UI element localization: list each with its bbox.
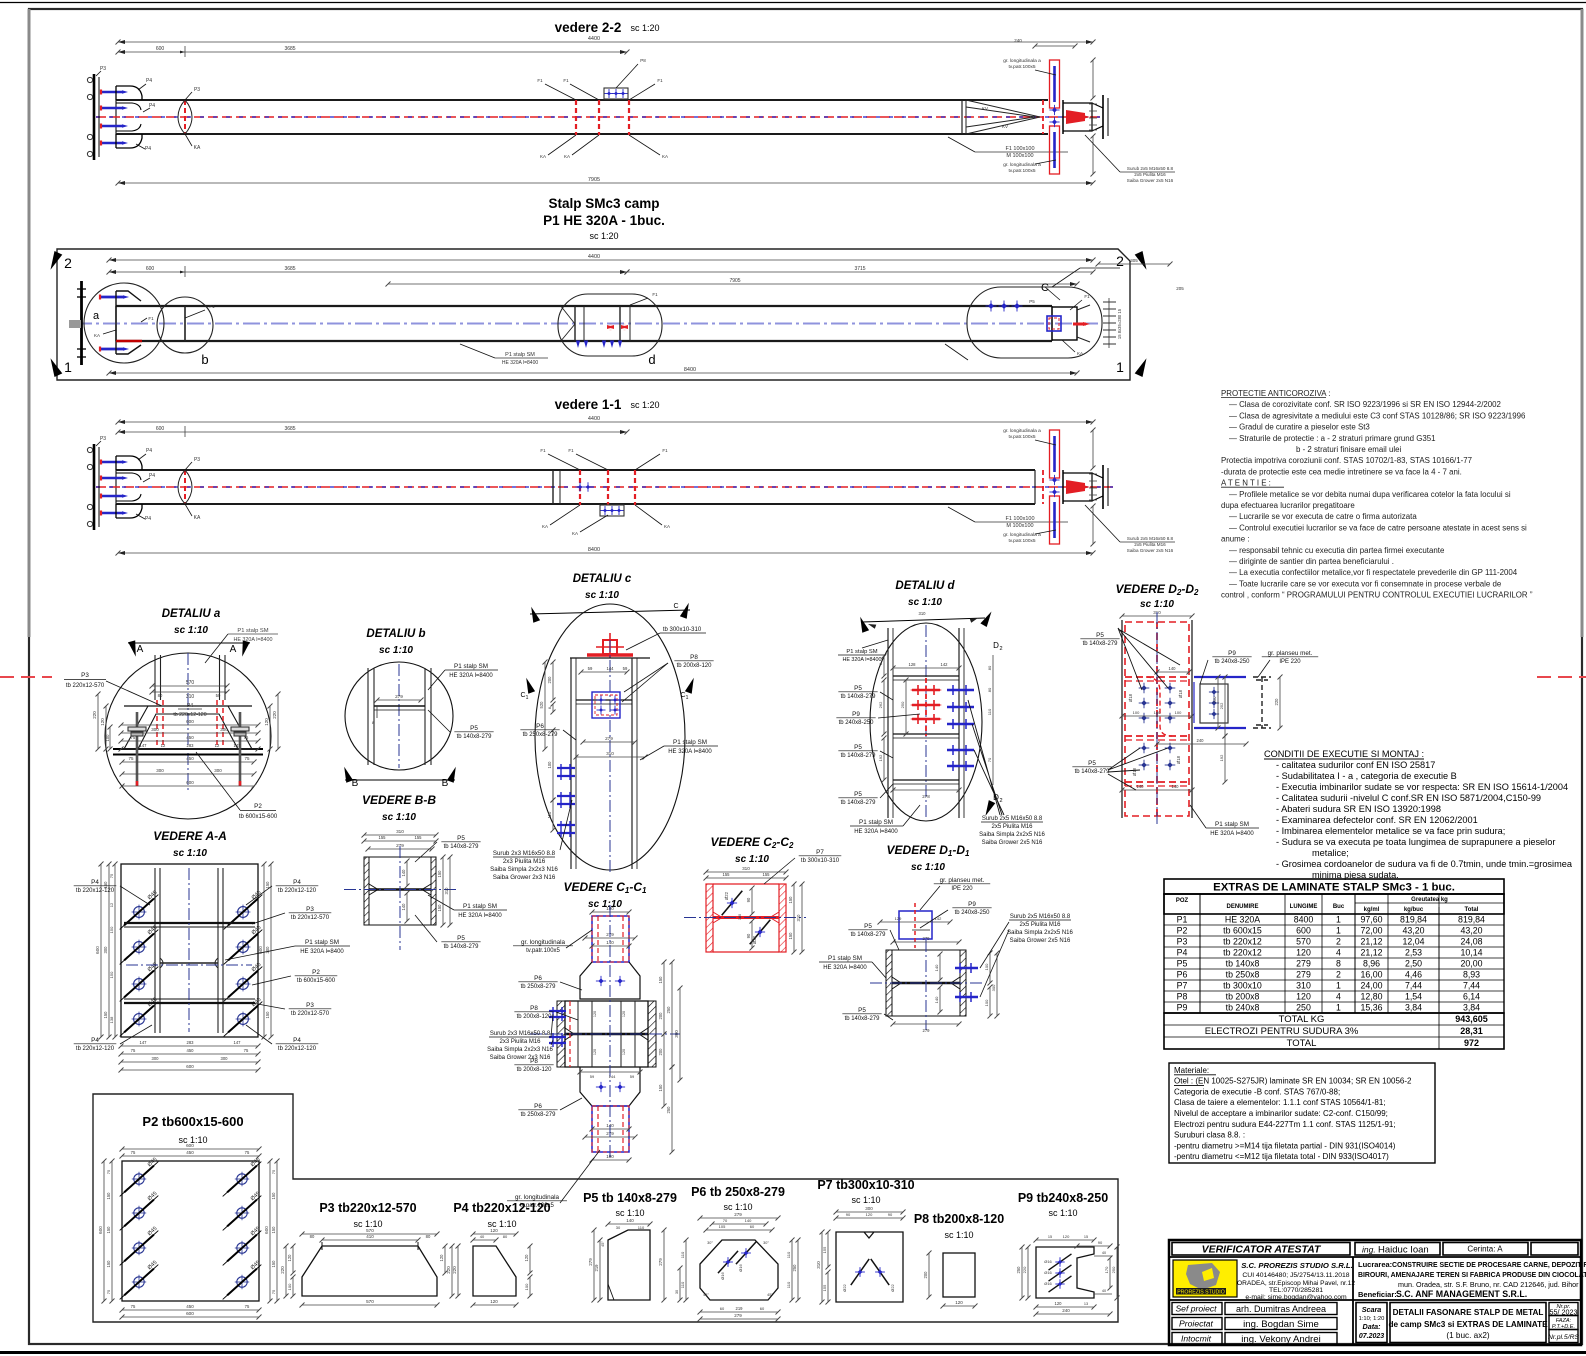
section B-B flags bbox=[345, 779, 455, 781]
vedere 2-2 top dimension 4400 bbox=[118, 41, 1093, 43]
P5 plate shape bbox=[608, 1230, 650, 1300]
svg-text:2: 2 bbox=[999, 646, 1002, 652]
svg-text:55/ 2023: 55/ 2023 bbox=[1550, 1308, 1578, 1317]
svg-text:1: 1 bbox=[1336, 926, 1341, 936]
svg-text:75: 75 bbox=[106, 1289, 111, 1294]
svg-text:tb 140x8-279: tb 140x8-279 bbox=[444, 944, 480, 950]
svg-text:4,46: 4,46 bbox=[1405, 970, 1422, 980]
svg-text:P2: P2 bbox=[254, 803, 262, 810]
svg-text:LUNGIME: LUNGIME bbox=[1290, 904, 1318, 910]
svg-text:P7: P7 bbox=[1177, 981, 1188, 991]
svg-text:— diriginte de santier di: — diriginte de santier din partea benefi… bbox=[1229, 557, 1394, 566]
svg-text:140: 140 bbox=[1169, 666, 1177, 671]
svg-text:tb 140x8-279: tb 140x8-279 bbox=[841, 694, 877, 700]
svg-text:70: 70 bbox=[723, 1218, 728, 1223]
svg-text:310: 310 bbox=[186, 694, 195, 700]
plan end plate left bbox=[80, 281, 83, 365]
svg-text:120: 120 bbox=[955, 1300, 963, 1305]
label F1 weld mid (vedere 2-2) bbox=[948, 137, 975, 152]
svg-text:972: 972 bbox=[1464, 1038, 1479, 1048]
svg-text:P1 stalp SM: P1 stalp SM bbox=[828, 955, 862, 962]
section line C (top) bbox=[530, 610, 690, 614]
svg-text:150: 150 bbox=[265, 1011, 270, 1019]
svg-text:- Sudabilitatea I - a ,: - Sudabilitatea I - a , categoria de exe… bbox=[1276, 771, 1457, 781]
svg-text:155: 155 bbox=[822, 1246, 827, 1253]
svg-text:600: 600 bbox=[186, 1311, 194, 1316]
svg-text:300: 300 bbox=[221, 1056, 229, 1061]
svg-text:TOTAL: TOTAL bbox=[1287, 1038, 1317, 1049]
svg-text:dupa efectuarea lucrarilor pre: dupa efectuarea lucrarilor pregatitoare bbox=[1221, 501, 1355, 510]
svg-text:170: 170 bbox=[1104, 1266, 1109, 1273]
svg-text:F1 100x100: F1 100x100 bbox=[1005, 146, 1034, 152]
plan view border box bbox=[57, 249, 1130, 380]
svg-text:P4: P4 bbox=[145, 146, 151, 152]
svg-text:283: 283 bbox=[187, 1040, 195, 1045]
svg-text:2: 2 bbox=[64, 255, 72, 271]
svg-text:600: 600 bbox=[95, 946, 100, 954]
svg-text:200: 200 bbox=[658, 1012, 663, 1020]
svg-text:13: 13 bbox=[1084, 1302, 1088, 1306]
detail c blue bolts left bbox=[557, 767, 575, 769]
detail a anchor bolts bbox=[136, 712, 139, 786]
svg-text:120: 120 bbox=[593, 1049, 597, 1055]
svg-text:220: 220 bbox=[1022, 1266, 1027, 1273]
svg-text:P6: P6 bbox=[534, 975, 542, 982]
plan c red arrow bbox=[1073, 323, 1086, 326]
svg-text:F1: F1 bbox=[148, 316, 154, 321]
svg-text:IPE 220: IPE 220 bbox=[951, 886, 973, 892]
svg-text:KV: KV bbox=[982, 106, 988, 111]
svg-text:2x5 Piulita M16: 2x5 Piulita M16 bbox=[1019, 922, 1061, 928]
svg-text:kg/ml: kg/ml bbox=[1364, 907, 1380, 913]
svg-text:tv.patr.100x5: tv.patr.100x5 bbox=[1008, 538, 1035, 544]
svg-text:2,53: 2,53 bbox=[1405, 948, 1422, 958]
svg-text:450: 450 bbox=[186, 735, 194, 740]
D2 leader fan left bbox=[1118, 628, 1180, 690]
svg-text:P8: P8 bbox=[530, 1058, 538, 1065]
svg-text:P5: P5 bbox=[854, 685, 862, 692]
svg-text:305: 305 bbox=[1130, 258, 1138, 263]
vedere 2-2 dim 600+3685 bbox=[118, 51, 627, 53]
svg-text:P2 tb600x15-600: P2 tb600x15-600 bbox=[142, 1114, 243, 1129]
svg-text:80: 80 bbox=[503, 1234, 508, 1239]
svg-text:110: 110 bbox=[638, 1225, 645, 1230]
svg-text:tb 140x8-279: tb 140x8-279 bbox=[841, 800, 877, 806]
svg-text:90: 90 bbox=[746, 933, 751, 938]
svg-text:P4: P4 bbox=[146, 78, 152, 84]
svg-text:P5: P5 bbox=[1177, 959, 1188, 969]
svg-text:— Clasa de corozivitate c: — Clasa de corozivitate conf. SR ISO 922… bbox=[1229, 400, 1501, 409]
svg-text:sc 1:10: sc 1:10 bbox=[723, 1202, 752, 1212]
svg-text:Sef proiect: Sef proiect bbox=[1175, 1304, 1217, 1314]
svg-text:Saiba Simpla 2x2x5 N16: Saiba Simpla 2x2x5 N16 bbox=[1007, 930, 1073, 936]
svg-text:60: 60 bbox=[720, 1306, 725, 1311]
svg-text:sc 1:10: sc 1:10 bbox=[585, 590, 619, 601]
svg-text:Stalp SMc3 camp: Stalp SMc3 camp bbox=[548, 196, 659, 211]
surub labels (vedere 1-1 right) bbox=[1085, 505, 1120, 542]
svg-text:P8: P8 bbox=[690, 654, 698, 661]
svg-text:150: 150 bbox=[265, 881, 270, 889]
svg-text:sc 1:10: sc 1:10 bbox=[173, 848, 207, 859]
right info boxes bbox=[1549, 1303, 1578, 1316]
svg-text:Saiba Simpla 2x2x5 N16: Saiba Simpla 2x2x5 N16 bbox=[979, 832, 1045, 838]
svg-text:4400: 4400 bbox=[588, 416, 600, 422]
detail c top plate black lines bbox=[570, 657, 650, 659]
C2 red I-section bbox=[706, 884, 713, 952]
D1 blue bolts right bbox=[955, 967, 978, 969]
anchor bolts M20 (vedere 2-2 left) bbox=[101, 91, 123, 94]
detail d oval bbox=[870, 623, 982, 821]
svg-text:tb 220x12-570: tb 220x12-570 bbox=[291, 915, 330, 921]
plan red weld mark left bbox=[116, 340, 142, 342]
svg-text:P4: P4 bbox=[145, 516, 151, 522]
svg-text:B: B bbox=[352, 778, 359, 789]
splice line in circle b bbox=[184, 306, 186, 341]
svg-text:vedere 1-1: vedere 1-1 bbox=[555, 397, 622, 412]
svg-text:- Examinarea defectelor: - Examinarea defectelor conf. SR EN 1206… bbox=[1276, 815, 1478, 825]
svg-text:tb 250x8-279: tb 250x8-279 bbox=[523, 732, 559, 738]
scara data box bbox=[1356, 1303, 1387, 1343]
plan c blue bolts bbox=[988, 303, 994, 309]
svg-text:1: 1 bbox=[686, 695, 689, 701]
svg-text:gr. longitudinala: gr. longitudinala bbox=[515, 1194, 560, 1201]
D2 bolt grid bbox=[1141, 685, 1147, 691]
svg-text:155: 155 bbox=[763, 872, 771, 877]
svg-text:P3 tb220x12-570: P3 tb220x12-570 bbox=[319, 1201, 416, 1215]
svg-text:75: 75 bbox=[106, 1169, 111, 1174]
svg-text:F1: F1 bbox=[1084, 294, 1090, 299]
right end connection (vedere 1-1) bbox=[1034, 470, 1036, 504]
svg-text:tb 240x8: tb 240x8 bbox=[1226, 1003, 1260, 1013]
svg-text:200: 200 bbox=[658, 1048, 663, 1056]
mid connection (vedere 1-1) bbox=[552, 470, 554, 504]
vedere 1-1 top dim 4400 bbox=[118, 421, 1093, 423]
detail a haunch plate bbox=[124, 706, 252, 749]
svg-text:P5: P5 bbox=[470, 725, 478, 732]
left margin centerline mark bbox=[0, 676, 52, 678]
detail c red plate top bbox=[587, 653, 633, 657]
svg-text:570: 570 bbox=[1296, 937, 1311, 947]
D2 red dashed outline bbox=[1125, 622, 1189, 816]
svg-text:Ø22: Ø22 bbox=[842, 1283, 847, 1291]
svg-text:KA: KA bbox=[572, 531, 578, 536]
detail a dims below bbox=[122, 761, 254, 763]
logo cell bbox=[1173, 1260, 1237, 1297]
svg-text:VEDERE B-B: VEDERE B-B bbox=[362, 793, 436, 807]
svg-text:tb 140x8-279: tb 140x8-279 bbox=[457, 734, 493, 740]
svg-text:sc 1:10: sc 1:10 bbox=[908, 597, 942, 608]
svg-text:8400: 8400 bbox=[684, 367, 696, 373]
svg-text:7,44: 7,44 bbox=[1405, 981, 1422, 991]
svg-text:arh. Dumitras Andreea: arh. Dumitras Andreea bbox=[1236, 1304, 1326, 1314]
svg-text:Saiba Grower 2x5 N16: Saiba Grower 2x5 N16 bbox=[982, 840, 1043, 846]
svg-text:P1 stalp SM: P1 stalp SM bbox=[859, 819, 893, 826]
svg-text:M 100x100: M 100x100 bbox=[1006, 153, 1033, 159]
C1 upper flare P6 bbox=[580, 962, 640, 999]
svg-text:P1 stalp SM: P1 stalp SM bbox=[454, 663, 488, 670]
svg-text:tb 220x12: tb 220x12 bbox=[1223, 937, 1262, 947]
svg-text:45°: 45° bbox=[703, 1293, 709, 1297]
svg-text:155: 155 bbox=[379, 835, 387, 840]
svg-text:140: 140 bbox=[745, 1218, 752, 1223]
svg-text:-pentru diametru >=M14 tija fi: -pentru diametru >=M14 tija filetata par… bbox=[1174, 1141, 1396, 1150]
svg-text:120: 120 bbox=[866, 1212, 873, 1217]
P3 dims bbox=[302, 1233, 437, 1235]
svg-text:F1: F1 bbox=[568, 448, 574, 453]
svg-text:Surub 2x5 M16x50 8.8: Surub 2x5 M16x50 8.8 bbox=[982, 816, 1043, 822]
svg-text:30°: 30° bbox=[707, 1241, 713, 1245]
detail circle b bbox=[157, 297, 213, 353]
svg-text:— Toate lucrarile care se: — Toate lucrarile care se vor executa vo… bbox=[1229, 579, 1502, 588]
svg-text:110: 110 bbox=[786, 1281, 791, 1288]
detail a dims right bbox=[277, 694, 279, 749]
svg-text:— Straturile de protectie: — Straturile de protectie : a - 2 stratu… bbox=[1229, 434, 1436, 443]
surub labels (vedere 2-2 right) bbox=[1085, 135, 1120, 172]
svg-text:P5: P5 bbox=[457, 835, 465, 842]
svg-text:220: 220 bbox=[272, 711, 277, 719]
svg-text:80: 80 bbox=[310, 1234, 315, 1239]
svg-text:150: 150 bbox=[658, 976, 663, 984]
detail a column shafts bbox=[154, 655, 156, 700]
svg-text:HE 320A l=8400: HE 320A l=8400 bbox=[300, 949, 344, 955]
svg-text:90: 90 bbox=[1098, 1240, 1103, 1245]
svg-text:150: 150 bbox=[271, 1192, 276, 1200]
svg-text:450: 450 bbox=[186, 756, 194, 761]
P9 plate shape bbox=[1036, 1247, 1094, 1298]
beam centerline (vedere 2-2) bbox=[96, 116, 1100, 118]
svg-text:600: 600 bbox=[186, 1143, 194, 1148]
svg-text:tb 140x8-279: tb 140x8-279 bbox=[841, 753, 877, 759]
svg-text:150: 150 bbox=[106, 1192, 111, 1200]
detail a circle bbox=[105, 653, 271, 819]
svg-text:P4: P4 bbox=[187, 703, 193, 709]
svg-text:F1: F1 bbox=[652, 292, 658, 297]
svg-text:450: 450 bbox=[187, 1048, 195, 1053]
svg-text:144: 144 bbox=[609, 1074, 616, 1079]
svg-text:tv.patr.100x5: tv.patr.100x5 bbox=[526, 948, 560, 954]
svg-text:ORADEA, str.Episcop Mihai Pave: ORADEA, str.Episcop Mihai Pavel, nr.12 bbox=[1237, 1280, 1355, 1287]
svg-text:Otel : (EN 10025-S275JR) lami: Otel : (EN 10025-S275JR) laminate SR EN … bbox=[1174, 1077, 1412, 1086]
P5 dims bbox=[608, 1223, 650, 1225]
svg-text:- calitatea sudurilor co: - calitatea sudurilor conf EN ISO 25817 bbox=[1276, 760, 1435, 770]
detail b circle bbox=[345, 662, 453, 770]
svg-text:3685: 3685 bbox=[284, 46, 295, 52]
svg-text:279: 279 bbox=[923, 1028, 931, 1033]
svg-text:b - 2 straturi finisare email: b - 2 straturi finisare email ulei bbox=[1296, 445, 1401, 454]
svg-text:140: 140 bbox=[1154, 710, 1161, 715]
B-B section bbox=[364, 857, 369, 925]
C2 dims right bbox=[793, 884, 795, 952]
svg-text:gr. longitudinala a: gr. longitudinala a bbox=[1003, 428, 1041, 434]
svg-text:600: 600 bbox=[98, 1226, 103, 1234]
svg-text:75: 75 bbox=[131, 1304, 136, 1309]
svg-text:P5: P5 bbox=[1088, 760, 1096, 767]
stiffener brackets (vedere 1-1 left) bbox=[116, 456, 142, 470]
svg-text:15: 15 bbox=[1048, 1235, 1052, 1239]
svg-text:CONSTRUIRE SECTIE DE PROCESARE: CONSTRUIRE SECTIE DE PROCESARE CARNE, DE… bbox=[1392, 1262, 1586, 1269]
svg-text:A T E N T I E :: A T E N T I E : bbox=[1221, 479, 1271, 488]
svg-text:40: 40 bbox=[1102, 1251, 1106, 1255]
svg-text:138: 138 bbox=[109, 1016, 114, 1023]
svg-text:Data:: Data: bbox=[1363, 1322, 1382, 1331]
svg-text:— responsabil tehnic cu e: — responsabil tehnic cu executia din par… bbox=[1229, 546, 1445, 555]
svg-text:tb 200x8-120: tb 200x8-120 bbox=[677, 663, 713, 669]
svg-text:DETALIU b: DETALIU b bbox=[366, 628, 425, 640]
plan dim 4400 bbox=[109, 259, 1093, 261]
svg-text:24,08: 24,08 bbox=[1460, 937, 1482, 947]
svg-text:310: 310 bbox=[1296, 981, 1311, 991]
svg-text:Scara: Scara bbox=[1362, 1305, 1382, 1314]
splice plates red/blue (vedere 2-2 right) bbox=[1050, 60, 1060, 108]
svg-text:250: 250 bbox=[1212, 696, 1217, 703]
svg-text:F1: F1 bbox=[209, 304, 215, 309]
svg-text:CONDITII DE EXECUTIE SI MONTAJ: CONDITII DE EXECUTIE SI MONTAJ : bbox=[1264, 749, 1424, 759]
bottom panel border bbox=[93, 1094, 1118, 1322]
svg-text:120: 120 bbox=[622, 1049, 626, 1055]
svg-text:F1: F1 bbox=[563, 78, 569, 83]
svg-text:tb 240x8-250: tb 240x8-250 bbox=[839, 720, 875, 726]
svg-text:21,12: 21,12 bbox=[1360, 948, 1382, 958]
svg-text:3715: 3715 bbox=[854, 266, 865, 272]
svg-text:150: 150 bbox=[106, 1260, 111, 1268]
svg-text:P1 stalp SM: P1 stalp SM bbox=[305, 939, 339, 946]
svg-text:30: 30 bbox=[675, 1290, 679, 1294]
svg-text:75: 75 bbox=[131, 735, 136, 740]
svg-text:140: 140 bbox=[626, 1218, 634, 1223]
svg-text:HE 320A l=8400: HE 320A l=8400 bbox=[854, 829, 898, 835]
svg-text:279: 279 bbox=[734, 1313, 742, 1318]
svg-text:8: 8 bbox=[548, 707, 552, 709]
section line A-A bbox=[128, 642, 250, 644]
svg-text:278: 278 bbox=[922, 794, 930, 799]
svg-text:12: 12 bbox=[109, 902, 114, 907]
svg-text:VEDERE C1-C1: VEDERE C1-C1 bbox=[564, 880, 647, 895]
svg-text:150: 150 bbox=[788, 896, 793, 904]
svg-text:HE 320A l=8400: HE 320A l=8400 bbox=[458, 913, 502, 919]
svg-text:KA: KA bbox=[564, 154, 570, 159]
svg-text:tb 140x8-279: tb 140x8-279 bbox=[851, 932, 887, 938]
svg-text:Surub 2x3 M16x50 8.8: Surub 2x3 M16x50 8.8 bbox=[493, 850, 556, 857]
D2 red dashed stiffener rows bbox=[1125, 676, 1189, 678]
svg-text:570: 570 bbox=[366, 1228, 374, 1233]
svg-text:gr. planseu met.: gr. planseu met. bbox=[940, 877, 985, 884]
svg-text:60: 60 bbox=[750, 1224, 755, 1229]
svg-text:tb 220x12-570: tb 220x12-570 bbox=[66, 683, 105, 689]
B-B inner dims bbox=[406, 861, 408, 886]
svg-text:2,50: 2,50 bbox=[1405, 959, 1422, 969]
svg-text:Saiba Grower 2x5 N16: Saiba Grower 2x5 N16 bbox=[1010, 938, 1071, 944]
svg-text:sc 1:10: sc 1:10 bbox=[1140, 599, 1174, 610]
svg-text:142: 142 bbox=[935, 916, 942, 921]
svg-text:P1 stalp SM: P1 stalp SM bbox=[846, 649, 877, 655]
svg-text:sc 1:20: sc 1:20 bbox=[630, 23, 659, 33]
svg-text:40: 40 bbox=[1102, 1289, 1106, 1293]
svg-text:120: 120 bbox=[490, 1299, 498, 1304]
svg-text:252: 252 bbox=[1219, 702, 1224, 709]
svg-text:tb 300x10: tb 300x10 bbox=[1223, 981, 1262, 991]
svg-text:60: 60 bbox=[760, 1306, 765, 1311]
svg-text:Saiba Grower 2x5 N16: Saiba Grower 2x5 N16 bbox=[1127, 178, 1174, 183]
svg-text:sc 1:10: sc 1:10 bbox=[911, 862, 945, 873]
table EXTRAS DE LAMINATE bbox=[1164, 879, 1504, 894]
svg-text:155: 155 bbox=[415, 835, 423, 840]
svg-text:250: 250 bbox=[1296, 1003, 1311, 1013]
svg-text:— Gradul de curatire a pi: — Gradul de curatire a pieselor este St3 bbox=[1229, 423, 1370, 432]
svg-text:Ø16: Ø16 bbox=[1044, 1270, 1052, 1275]
svg-text:P8 tb200x8-120: P8 tb200x8-120 bbox=[914, 1212, 1004, 1226]
svg-text:300: 300 bbox=[674, 1030, 679, 1038]
svg-text:P6: P6 bbox=[534, 1103, 542, 1110]
C1 central assembly bbox=[557, 1001, 565, 1067]
svg-text:VEDERE A-A: VEDERE A-A bbox=[153, 829, 227, 843]
svg-text:P1 stalp SM: P1 stalp SM bbox=[463, 903, 497, 910]
svg-text:59: 59 bbox=[623, 666, 628, 671]
svg-text:2: 2 bbox=[1336, 970, 1341, 980]
svg-text:HE 320A l=8400: HE 320A l=8400 bbox=[823, 965, 867, 971]
svg-text:2: 2 bbox=[999, 798, 1002, 804]
svg-text:600: 600 bbox=[186, 1064, 194, 1069]
svg-text:tb 600x15-600: tb 600x15-600 bbox=[239, 814, 278, 820]
P4 plate shape bbox=[473, 1246, 516, 1296]
svg-text:Total: Total bbox=[1465, 907, 1479, 913]
svg-text:tb 220x12-120: tb 220x12-120 bbox=[278, 1046, 317, 1052]
detail d stiffeners bbox=[893, 675, 959, 677]
svg-text:- Calitatea sudurii -ni: - Calitatea sudurii -nivelul C conf.SR E… bbox=[1276, 793, 1541, 803]
svg-text:140: 140 bbox=[1137, 784, 1145, 789]
splice plates red/blue (vedere 1-1 right) bbox=[1050, 430, 1060, 478]
svg-text:Intocmit: Intocmit bbox=[1181, 1334, 1212, 1344]
svg-text:110: 110 bbox=[547, 811, 552, 818]
vedere 1-1 bottom dim 8400 bbox=[118, 552, 1093, 554]
svg-text:2x5 Piulita M16: 2x5 Piulita M16 bbox=[1134, 542, 1166, 547]
svg-text:120: 120 bbox=[622, 1011, 626, 1017]
svg-text:P4: P4 bbox=[91, 1037, 99, 1044]
svg-text:140: 140 bbox=[401, 869, 406, 877]
svg-text:D: D bbox=[993, 641, 999, 650]
svg-text:S.C. PROREZIS STUDIO S.R.L.: S.C. PROREZIS STUDIO S.R.L. bbox=[1241, 1261, 1352, 1270]
svg-text:PROREZIS STUDIO: PROREZIS STUDIO bbox=[1177, 1290, 1225, 1296]
plan left weld leaders bbox=[103, 330, 116, 334]
C1 lower flare P6 bbox=[580, 1067, 640, 1106]
svg-text:240: 240 bbox=[1014, 38, 1022, 43]
svg-text:310: 310 bbox=[444, 887, 449, 895]
svg-text:tb 300x10-310: tb 300x10-310 bbox=[663, 627, 702, 633]
svg-text:Ø18: Ø18 bbox=[1176, 755, 1181, 764]
plan beam centerline bbox=[75, 323, 1098, 325]
B-B centerlines bbox=[344, 889, 456, 891]
section line D (top) bbox=[862, 618, 985, 622]
svg-text:tv.patr.100x5: tv.patr.100x5 bbox=[1008, 64, 1035, 70]
svg-text:P4 tb220x12-120: P4 tb220x12-120 bbox=[453, 1201, 550, 1215]
svg-text:59: 59 bbox=[590, 1074, 595, 1079]
svg-text:— Clasa de agresivitate a: — Clasa de agresivitate a mediului este … bbox=[1229, 411, 1526, 420]
svg-text:kg/buc: kg/buc bbox=[1404, 907, 1424, 913]
svg-text:120: 120 bbox=[1055, 1301, 1063, 1306]
svg-text:Saiba Simpla 2x2x3 N16: Saiba Simpla 2x2x3 N16 bbox=[490, 866, 558, 873]
plan dim right 7905 bbox=[388, 283, 1077, 285]
D1 blue tube top bbox=[899, 911, 932, 939]
svg-text:P3: P3 bbox=[81, 672, 89, 679]
svg-text:279: 279 bbox=[1296, 970, 1311, 980]
svg-text:570: 570 bbox=[366, 1299, 374, 1304]
right end connection (vedere 2-2) bbox=[961, 100, 963, 134]
plan haunch outline left bbox=[116, 291, 141, 354]
end bracket (vedere 1-1 right) bbox=[1062, 470, 1064, 504]
svg-text:e-mail: sime.bogdan@yahoo.com: e-mail: sime.bogdan@yahoo.com bbox=[1245, 1294, 1347, 1301]
C1 dims of tube bbox=[585, 937, 635, 939]
plan dim 600+3685+others bbox=[109, 271, 627, 273]
plan beam label P1 stalp SM bbox=[945, 344, 968, 360]
